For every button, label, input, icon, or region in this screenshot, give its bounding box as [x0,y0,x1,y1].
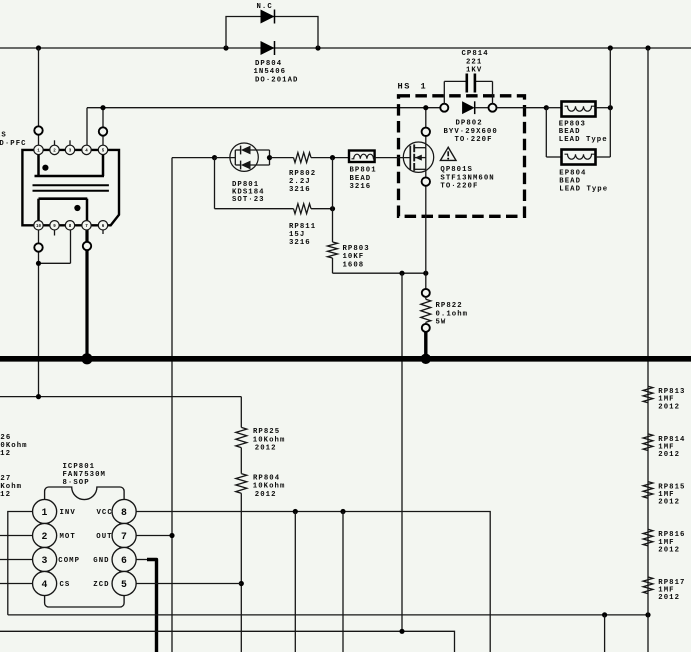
resistor RP813 1MF [643,386,653,403]
svg-text:RP804: RP804 [253,475,280,483]
MOSFET source contact link [414,168,426,170]
wire: cathode circle to EP junction [497,107,547,109]
svg-text:10KF: 10KF [343,253,365,261]
resistor RP825 10Kohm [236,427,247,447]
transformer top pin stubs (NC pins) [54,140,56,145]
svg-text:2012: 2012 [255,445,277,453]
ferrite bead BP801 box [349,151,375,163]
wire: riser from top net to transformer pin 1 [38,48,40,150]
svg-text:2.2J: 2.2J [289,178,311,186]
svg-text:10Kohm: 10Kohm [253,436,286,444]
svg-text:DP802: DP802 [456,120,483,128]
thick wire: transformer pin4' to ground bus [85,225,88,359]
wire: ZCD pin 5 to divider node [136,583,241,585]
diode N.C (top, not connected) [261,10,275,24]
svg-text:DP804: DP804 [255,60,282,68]
wire: chain x=648 below bus [647,386,649,652]
junction dot A/output chain [645,612,650,617]
terminal circle DP802 anode [440,104,448,112]
svg-text:7: 7 [121,531,127,542]
svg-text:10Kohm: 10Kohm [0,442,28,450]
wire: down to RP825 [240,397,242,428]
svg-text:1KV: 1KV [466,67,482,75]
resistor RP803 10KF vertical [332,209,334,242]
svg-text:221: 221 [466,58,482,66]
terminal circle RP822 bottom [422,324,430,332]
transformer bottom pin stubs [54,227,56,236]
junction dot RP811/RP803 node [330,206,335,211]
svg-text:BEAD: BEAD [350,175,372,183]
wire between RP825/RP804 [240,448,242,474]
resistor RP815 1MF [643,482,653,499]
svg-text:5: 5 [121,579,127,590]
junction dot gate node x=332.5 [330,155,335,160]
svg-text:1: 1 [41,507,47,518]
svg-text:INV: INV [60,509,76,517]
resistor RP802 2.2J [294,153,312,163]
svg-text:1608: 1608 [343,261,365,269]
resistor RP804 10Kohm [236,474,247,494]
MOSFET QP801S symbol [403,142,433,172]
junction dot x=402 on source return [399,271,404,276]
svg-text:RP826: RP826 [0,434,11,442]
junction dot drain node [423,105,428,110]
svg-text:2012: 2012 [658,594,680,602]
svg-text:STF13NM60N: STF13NM60N [440,174,494,182]
wire: branch down from DP801 left to RP811 [214,158,216,209]
junction dot B/x402 [399,629,404,634]
ferrite bead EP804 box [562,150,596,165]
resistor RP811 15J [294,204,312,214]
wire: x=604.6 down [604,615,606,652]
wire: EP803 to right node [596,107,611,109]
svg-text:2012: 2012 [658,546,680,554]
wire: control net horizontal y=396.6 [0,396,241,398]
svg-text:3216: 3216 [289,186,311,194]
transformer pin circles top row [34,145,43,154]
svg-text:2012: 2012 [658,451,680,459]
MOSFET body arrow (points to channel) [414,157,426,159]
transformer primary polarity dot [42,165,48,171]
terminal circle below pin1' [34,243,42,251]
terminal circle DP802 cathode [489,104,497,112]
resistor RP822 0.1ohm [425,297,427,299]
terminal circle RP822 top [422,289,430,297]
junction dot before beads [544,105,549,110]
svg-text:3: 3 [41,555,47,566]
transformer primary winding bar (top) [35,175,105,178]
wire: MOT pin 2 to left edge [0,535,33,537]
svg-text:CS: CS [60,581,71,589]
wire: transformer pin5 riser [102,108,104,150]
svg-text:ICP801: ICP801 [63,463,96,471]
wire: long vertical x=402 from source return down to bottom net [401,273,403,631]
junction dot pin5 riser joins drain net [100,105,105,110]
capacitor CP814 plates [465,74,468,93]
svg-text:COMP: COMP [58,557,80,565]
terminal circle on pin5 riser [99,127,107,135]
transformer secondary polarity dot [74,205,80,211]
svg-text:RP803: RP803 [343,245,370,253]
svg-text:3216: 3216 [350,183,372,191]
svg-text:ZCD: ZCD [93,581,109,589]
wire: OUT pin 7 to gate-drive riser [136,535,172,537]
svg-text:8·SOP: 8·SOP [63,479,90,487]
svg-text:QP801S: QP801S [440,166,473,174]
wire: gate drive net from OUT riser corner to DP801 [172,157,215,159]
svg-text:RP811: RP811 [289,223,316,231]
IC pin circles [33,499,57,523]
thick ground wire from pin 6 down [147,560,157,652]
svg-text:RP827: RP827 [0,475,11,483]
big junction dot RP822 to bus [421,354,431,364]
svg-text:801S: 801S [0,131,7,139]
terminal circle on pin1 riser [34,126,42,134]
svg-text:TO·220F: TO·220F [440,183,478,191]
wire RP811 to gate node riser [311,208,333,210]
svg-text:DO·201AD: DO·201AD [255,76,298,84]
junction dots on top net [36,45,41,50]
resistor RP817 1MF [643,577,653,594]
wire: vertical OUT riser x=172 (crosses bus) [171,158,173,652]
svg-text:1: 1 [421,82,428,92]
junction dot at pin1'/pin3' tie [36,261,41,266]
junction dot ZCD node [239,581,244,586]
svg-text:TO·220F: TO·220F [455,136,493,144]
DP801 internal diodes [215,157,236,159]
wire: gate lead into MOSFET [375,157,411,159]
wire: RP803 bottom to source node [333,272,426,274]
wire: drain net horizontal from transformer to MOSFET/diode [87,107,444,109]
wire: N.C diode bypass loop [226,17,318,49]
wire RP802 to gate node [311,157,349,159]
big junction dot transformer to bus [81,353,92,364]
svg-text:LEAD Type: LEAD Type [559,186,608,194]
wire: top AC net horizontal [0,47,691,49]
wire: bottom pin1' down to control net with L-link to pin3' [38,227,40,397]
wire to RP802 [270,157,294,159]
svg-text:SOT·23: SOT·23 [232,196,265,204]
junction dot right of DP801 [267,155,272,160]
wire: drain vertical to top node / source vertical down [425,108,427,148]
svg-text:8: 8 [121,507,127,518]
svg-text:15J: 15J [289,231,305,239]
wire: COMP pin 3 to left edge [0,559,33,561]
wire: CS pin 4 to left edge [0,583,33,585]
svg-text:LEAD Type: LEAD Type [559,136,608,144]
transformer core bars [33,184,109,186]
wire: vcc tap down x=343 [342,512,344,652]
wire: riser from bead node to top net [609,48,611,108]
svg-text:10Kohm: 10Kohm [253,483,286,491]
transformer secondary winding bar (bottom) [39,197,88,200]
junction dot source node [423,271,428,276]
resistor RP814 1MF [643,434,653,451]
terminal circle on drain [422,128,430,136]
ferrite bead EP803 box [562,102,596,117]
wire: bottom net B y=631.3 with corner down at x=454.5 [0,631,455,652]
wire: transformer pin4 riser to drain net [86,108,88,150]
svg-text:RP825: RP825 [253,428,280,436]
wire diode to cathode circle [475,107,489,109]
svg-text:4: 4 [41,579,47,590]
svg-text:2012: 2012 [255,491,277,499]
svg-text:BEAD: BEAD [559,178,581,186]
svg-text:BP801: BP801 [350,167,377,175]
wire: VCC pin 8 net to right with corner down [136,512,490,652]
svg-text:MOT: MOT [60,533,76,541]
svg-text:MD·PFC: MD·PFC [0,140,27,148]
svg-text:2012: 2012 [658,403,680,411]
svg-text:10: 10 [36,225,42,229]
diode DP804 1N5406 [261,41,275,55]
terminal circle on source [422,177,430,185]
wire: chain down to ZCD node and beyond [240,493,242,652]
junction dot A/x604.6 [602,612,607,617]
svg-text:2012: 2012 [0,491,11,499]
wire: GND pin 6 thin lead [136,559,147,561]
svg-text:10Kohm: 10Kohm [0,483,22,491]
wire: bead node to EP803 [546,107,561,109]
wire: INV pin 1 to left and down to feedback net [8,512,33,615]
wire: vcc tap down x=295.3 [294,512,296,652]
svg-text:HS: HS [398,82,412,92]
ground bus (thick horizontal) [0,356,691,362]
transformer TP801 body box [22,150,119,225]
svg-text:2012: 2012 [658,499,680,507]
MOSFET gate bar [409,146,411,170]
svg-text:OUT: OUT [96,533,112,541]
IC ICP801 body box with notch [45,487,125,607]
svg-text:FAN7530M: FAN7530M [63,471,106,479]
resistor RP816 1MF [643,529,653,546]
junction dot OUT to riser [169,533,174,538]
transformer pin circles bottom row [34,221,43,230]
svg-text:3216: 3216 [289,239,311,247]
thick wire RP822 to bus [424,332,427,359]
heatsink dashed box HS1 [399,96,525,217]
wire: EP804 right side up to node [596,156,611,158]
svg-text:1N5406: 1N5406 [254,68,287,76]
svg-text:6: 6 [121,555,127,566]
svg-text:GND: GND [93,557,109,565]
dual diode DP801 KDS184 circle [230,143,258,171]
svg-text:N.C: N.C [257,3,273,11]
wire: feedback net A y=615 [8,614,648,616]
svg-text:RP822: RP822 [436,302,463,310]
svg-text:EP804: EP804 [559,170,586,178]
wire: EP804 parallel branch [545,108,547,157]
svg-text:CP814: CP814 [462,50,489,58]
svg-text:5W: 5W [436,319,447,327]
junction dot left of DP801 [212,155,217,160]
MOSFET drain contact link [414,147,426,149]
wire: vertical tie x=332.5 between gate node and RP811 node [332,158,334,209]
MOSFET channel segments [413,144,415,152]
warning triangle [440,147,456,160]
svg-text:2: 2 [41,531,47,542]
diode DP802 BYV29X600 [462,101,475,114]
junction dot right of EP803 [608,105,613,110]
svg-text:BYV·29X600: BYV·29X600 [444,128,498,136]
svg-text:RP802: RP802 [289,170,316,178]
junction dots on VCC net [293,509,298,514]
svg-text:0.1ohm: 0.1ohm [436,310,469,318]
junction dot transformer sense tap [36,394,41,399]
svg-text:2012: 2012 [0,450,11,458]
svg-text:VCC: VCC [97,509,113,517]
wire: right output riser x=648 from top net down (crosses bus) [647,48,649,386]
snubber capacitor CP814 wires [443,81,445,103]
terminal circle below pin4' [83,242,91,250]
